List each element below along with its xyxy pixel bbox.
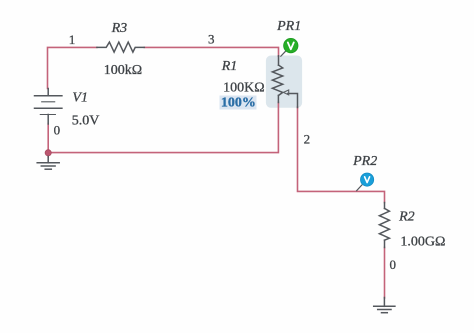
svg-text:3: 3: [208, 31, 215, 46]
svg-text:2: 2: [304, 131, 311, 146]
svg-text:0: 0: [390, 257, 397, 272]
svg-text:PR2: PR2: [352, 154, 377, 169]
svg-text:R2: R2: [398, 210, 415, 225]
svg-text:1.00GΩ: 1.00GΩ: [400, 235, 445, 250]
svg-text:PR1: PR1: [276, 19, 301, 34]
svg-text:100%: 100%: [221, 96, 256, 111]
svg-text:100KΩ: 100KΩ: [223, 80, 265, 95]
svg-text:R1: R1: [221, 59, 238, 74]
svg-text:0: 0: [54, 122, 61, 137]
svg-text:R3: R3: [111, 21, 128, 36]
svg-text:5.0V: 5.0V: [72, 113, 100, 128]
svg-text:V1: V1: [72, 91, 88, 106]
svg-text:100kΩ: 100kΩ: [104, 63, 142, 78]
svg-text:1: 1: [69, 32, 76, 47]
